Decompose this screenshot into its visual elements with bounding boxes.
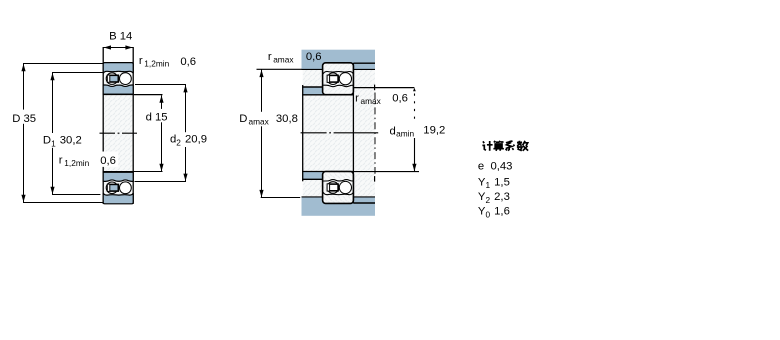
- ra dash-dot vertical line: [374, 93, 376, 174]
- axis centerline (dash-dot): [301, 132, 379, 134]
- svg-text:e 0,43: e 0,43: [478, 160, 513, 172]
- arrow da bottom: [412, 164, 416, 171]
- svg-text:D: D: [239, 113, 247, 125]
- cage inner rectangle: [330, 184, 338, 190]
- bore column right edge line: [132, 47, 134, 204]
- svg-text:Y0 1,6: Y0 1,6: [478, 206, 510, 220]
- char 算: [493, 141, 504, 151]
- dimension d2 extension bottom: [135, 181, 187, 183]
- label D1 30,2: [43, 133, 84, 148]
- svg-text:D 35: D 35: [12, 113, 36, 125]
- svg-text:Y1 1,5: Y1 1,5: [478, 176, 510, 190]
- right ball: [339, 73, 351, 85]
- arrow d top: [159, 95, 163, 102]
- inner ring (blue): [103, 172, 133, 181]
- shaft shoulder strip top (blue): [303, 87, 323, 94]
- dimension da line (dashed through labels): [414, 94, 416, 123]
- label d 15: [157, 109, 170, 122]
- right ball: [339, 181, 351, 193]
- inner raceway arcs: [323, 180, 353, 181]
- svg-text:0,6: 0,6: [392, 92, 408, 104]
- dimension d2 20,9: extension line top: [135, 84, 186, 86]
- dimension d 15 line: [161, 95, 163, 171]
- bearing section bottom (mirror): [323, 172, 354, 204]
- dimension d 15: extension line top: [134, 94, 163, 96]
- right ball: [120, 73, 132, 85]
- shaft shoulder strip bottom (blue): [303, 172, 323, 179]
- dimension D1 line: [52, 73, 54, 195]
- shaft shoulder strip top edge line: [302, 86, 323, 88]
- da extension line bottom: [354, 171, 419, 173]
- bore column hatch fill: [103, 63, 133, 204]
- dimension d2 20,9: extension line bottom (shared bore/r leader line): [103, 171, 163, 173]
- outer+inner ring outline box: [323, 172, 354, 204]
- label d2 20,9: [169, 132, 209, 147]
- bore column left edge line: [102, 47, 104, 204]
- svg-text:0,6: 0,6: [180, 56, 196, 68]
- dimension D 35: extension line bottom: [23, 202, 103, 204]
- outer raceway arc: [323, 192, 353, 194]
- arrow Da top: [259, 70, 263, 77]
- svg-text:amax: amax: [249, 117, 270, 127]
- dimension D1 30,2: extension line top: [52, 72, 103, 74]
- outer raceway arc: [323, 71, 353, 73]
- section bottom face line: [103, 93, 133, 95]
- svg-text:B 14: B 14: [109, 31, 132, 43]
- shoulder face line left: [302, 85, 304, 181]
- inner raceway arcs: [323, 85, 353, 86]
- char 系: [506, 141, 515, 151]
- svg-text:D1 30,2: D1 30,2: [43, 135, 82, 149]
- Da extension line bottom: [261, 197, 301, 199]
- arrow D bottom: [21, 195, 25, 202]
- svg-text:r: r: [139, 55, 143, 67]
- right ball: [120, 182, 132, 194]
- arrow d2 top: [183, 85, 187, 92]
- svg-text:1,2min: 1,2min: [144, 58, 169, 68]
- cage outer rectangle: [327, 184, 338, 191]
- svg-text:r: r: [355, 93, 359, 105]
- housing shoulder bottom edge line (top): [302, 68, 376, 70]
- inner ring (blue, two raceway grooves): [103, 85, 133, 94]
- bore line top (shaft seat): [302, 94, 353, 96]
- ra tick mark bottom right: [374, 176, 376, 182]
- outer ring (blue): [103, 193, 133, 204]
- bore line bottom (shaft seat): [302, 171, 353, 173]
- left ball (sectioned): [327, 182, 339, 194]
- label D_amax: [239, 112, 270, 127]
- label D 35: [22, 110, 38, 124]
- da extension line top: [354, 87, 415, 89]
- dimension D1 30,2: extension line bottom: [52, 194, 100, 196]
- svg-text:amax: amax: [361, 96, 382, 106]
- svg-text:r: r: [59, 154, 63, 166]
- outer+inner ring outline box: [323, 63, 354, 95]
- svg-text:0,6: 0,6: [100, 155, 116, 167]
- arrow D1 bottom: [50, 187, 54, 194]
- char 数: [517, 141, 528, 151]
- housing bore line right of bearing (bottom): [353, 202, 375, 204]
- cage inner rectangle: [330, 76, 338, 82]
- left ball (sectioned): [106, 73, 118, 85]
- axis centerline (dash-dot): [100, 132, 138, 134]
- housing band top (blue): [302, 50, 376, 70]
- label d_amin: [389, 124, 418, 138]
- bearing section top (white box): [323, 63, 354, 95]
- dimension Da line: [261, 69, 263, 197]
- ra tick mark top right: [374, 85, 376, 91]
- arrow B right: [125, 45, 132, 49]
- Da extension line top (r_amax shelf): [257, 68, 302, 70]
- arrow d bottom: [159, 164, 163, 171]
- svg-text:30,8: 30,8: [276, 113, 298, 125]
- housing shoulder top edge line (bottom): [302, 196, 376, 198]
- arrow D top: [21, 64, 25, 71]
- left ball (sectioned): [106, 182, 118, 194]
- dimension D 35 line: [23, 64, 25, 203]
- arrow d2 bottom: [183, 174, 187, 181]
- dimension B 14 line: [103, 47, 133, 49]
- svg-text:d2 20,9: d2 20,9: [170, 134, 207, 148]
- arrow B left: [104, 45, 111, 49]
- svg-text:1,2min: 1,2min: [64, 158, 89, 168]
- dimension D 35: extension line top: [23, 63, 103, 65]
- arrow D1 top: [50, 73, 54, 80]
- cage inner rectangle (blue): [110, 76, 118, 82]
- svg-text:d 15: d 15: [146, 111, 168, 123]
- housing bore line right of bearing (top): [353, 62, 375, 64]
- svg-text:amax: amax: [273, 55, 294, 65]
- cage outer rectangle: [107, 75, 118, 82]
- char 计: [482, 141, 492, 151]
- cage outer rectangle: [107, 184, 118, 191]
- svg-text:amin: amin: [396, 129, 414, 139]
- left ball (sectioned): [327, 73, 339, 85]
- arrow Da bottom: [259, 190, 263, 197]
- section top face line: [103, 171, 133, 173]
- svg-text:r: r: [268, 51, 272, 63]
- housing band bottom (blue): [302, 197, 376, 216]
- svg-text:d: d: [390, 126, 396, 138]
- outer ring (blue, spherical raceway): [103, 63, 133, 74]
- shaft shoulder strip bottom edge line: [302, 178, 323, 180]
- shaft/abutment hatch area: [303, 63, 375, 203]
- bearing right face line: [352, 63, 354, 203]
- cage outer rectangle: [327, 75, 338, 82]
- top bearing section: [103, 63, 133, 95]
- bottom bearing section (mirror of top): [103, 172, 133, 204]
- dimension d2 line: [185, 85, 187, 182]
- arrow da top (small): [413, 88, 416, 91]
- svg-text:Y2 2,3: Y2 2,3: [478, 191, 510, 205]
- svg-text:0,6: 0,6: [306, 51, 322, 63]
- heading 计算系数 (drawn strokes, bold CJK): [482, 141, 528, 151]
- cage inner rectangle (blue): [110, 185, 118, 191]
- svg-text:19,2: 19,2: [423, 125, 445, 137]
